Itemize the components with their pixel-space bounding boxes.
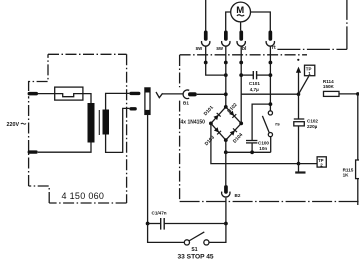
wire rt down	[269, 63, 271, 111]
mains terminal lug lower	[28, 150, 38, 153]
node C101 left	[239, 73, 243, 77]
plug sw2	[224, 31, 228, 41]
wire V to B1 socket	[162, 93, 183, 95]
node sw junction	[224, 73, 228, 77]
mains terminal lug upper	[28, 92, 38, 96]
capacitor C102 220u	[298, 94, 300, 119]
wire sw1 to sw2	[206, 63, 226, 76]
test point TP2	[299, 163, 318, 165]
secondary lug upper	[129, 92, 140, 95]
test point TP1	[299, 76, 309, 94]
svg-text:C1/47n: C1/47n	[152, 211, 167, 216]
svg-text:4 150 060: 4 150 060	[62, 191, 105, 201]
node R115 top	[356, 92, 359, 96]
node rs top junction	[269, 102, 273, 106]
diode D102	[226, 107, 241, 124]
svg-text:rs: rs	[275, 121, 280, 127]
socket sw1	[202, 41, 210, 46]
220V~ tilde mark	[21, 122, 26, 125]
svg-text:220µ: 220µ	[307, 124, 318, 129]
connector housing	[145, 88, 150, 115]
svg-text:220V: 220V	[7, 122, 20, 128]
diode D103	[211, 123, 226, 140]
svg-text:33 STOP 45: 33 STOP 45	[178, 253, 214, 260]
connector B2 plug	[224, 185, 228, 194]
circuit board boundary (dash-dot)	[180, 55, 307, 202]
resistor R115 1K	[356, 160, 359, 179]
svg-text:C101: C101	[249, 81, 260, 86]
svg-text:bl: bl	[242, 46, 247, 52]
wire sw2 down	[225, 63, 227, 107]
left enclosure boundary (dash-dot)	[29, 54, 127, 203]
capacitor C101	[241, 74, 253, 76]
svg-text:sw: sw	[216, 46, 223, 52]
star mark	[297, 59, 299, 61]
ground symbol	[298, 164, 300, 172]
node rt	[269, 61, 273, 65]
motor wires to plugs	[205, 0, 207, 31]
secondary lug lower	[129, 107, 136, 110]
wire bl to R114 rail	[241, 93, 298, 95]
node bl	[239, 61, 243, 65]
wire R114 to edge	[339, 93, 358, 95]
socket sw2	[222, 41, 230, 46]
wire lug to fuse	[38, 93, 55, 95]
220V~ label	[7, 122, 20, 128]
connector B2 socket	[222, 192, 230, 197]
switch rs	[268, 111, 272, 115]
node C1 right	[224, 222, 228, 226]
wire secondary bottom loop	[106, 108, 130, 152]
connector B1 socket arc	[183, 90, 189, 99]
socket bl	[237, 41, 245, 46]
plug sw1	[204, 31, 208, 41]
wire S1 branch left	[148, 224, 185, 243]
diode D104	[226, 123, 241, 140]
motor enclosure boundary (dash-dot)	[277, 0, 347, 49]
node bridge top	[224, 105, 228, 109]
svg-text:S1: S1	[191, 247, 197, 253]
node sw1	[204, 61, 208, 65]
ground node	[297, 162, 301, 166]
svg-text:4,7µ: 4,7µ	[250, 87, 259, 92]
wire R114 to R115	[357, 94, 359, 160]
node C100 bottom	[250, 150, 254, 154]
svg-text:150K: 150K	[323, 84, 335, 89]
female terminal V	[156, 92, 163, 98]
node sw2	[224, 61, 228, 65]
wire fuse to primary	[83, 94, 91, 103]
svg-text:B1: B1	[183, 101, 189, 106]
fuse Si	[55, 87, 83, 100]
node C1 left	[146, 222, 150, 226]
wire secondary top to lug	[106, 93, 130, 109]
wire primary bottom to lower lug	[38, 143, 91, 153]
node B1 junction	[224, 92, 228, 96]
motor M1	[231, 2, 251, 22]
svg-text:sw: sw	[196, 46, 203, 52]
board bottom boundary (dash-dot)	[180, 201, 359, 203]
capacitor C100	[246, 140, 257, 142]
plug bl	[239, 31, 243, 41]
diode D101	[211, 107, 226, 124]
node bridge right	[239, 122, 243, 126]
svg-text:C100: C100	[258, 141, 269, 146]
wire bridge left node to ground rail	[211, 123, 299, 163]
node rail B2	[224, 150, 228, 154]
socket rt	[266, 41, 274, 46]
svg-text:1K: 1K	[343, 172, 350, 177]
node TP1/C102	[297, 92, 301, 96]
svg-text:10n: 10n	[259, 146, 267, 151]
part number 4 150 060	[62, 191, 105, 201]
wire labels sw sw bl rt	[196, 45, 276, 52]
svg-text:4x 1N4150: 4x 1N4150	[181, 120, 206, 126]
wire rt branch to C100	[252, 104, 270, 140]
transformer core	[98, 110, 100, 135]
svg-text:C102: C102	[307, 118, 318, 123]
test point arrow	[298, 71, 300, 95]
svg-text:B2: B2	[235, 193, 241, 198]
wire B1 to sw2 line	[197, 93, 226, 95]
wire housing down to S1 node	[147, 114, 149, 223]
plug rt	[269, 31, 273, 41]
resistor R114 150K	[324, 91, 340, 96]
connector B1 plug	[188, 92, 197, 96]
switch S1	[184, 240, 189, 245]
svg-text:M: M	[236, 5, 244, 16]
capacitor C1 47n	[148, 223, 161, 225]
wire bridge bottom to rail	[225, 140, 227, 152]
node bridge left	[209, 122, 213, 126]
wire bl down	[240, 63, 242, 124]
node bridge bottom	[224, 138, 228, 142]
bridge rectifier 4x1N4150	[181, 120, 206, 126]
transformer primary winding	[88, 103, 95, 143]
wire rail to rs	[226, 151, 271, 153]
wire bridge bottom to B2	[225, 152, 227, 185]
svg-text:rt: rt	[272, 45, 276, 51]
transformer secondary winding	[103, 110, 110, 135]
node C101 right	[269, 73, 273, 77]
